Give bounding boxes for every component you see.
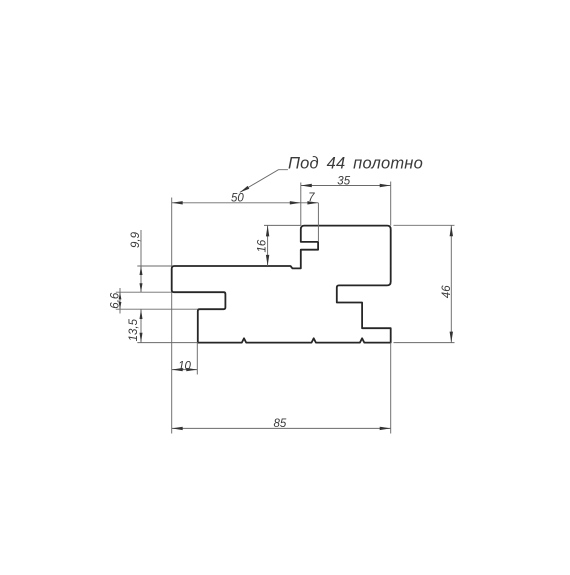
extension line left x=171.7 (50 top / 10 and 85 bottom) [171,198,173,267]
dimension 50 and 7 line [172,202,319,204]
extension line y=292.2 left (9,9 bottom / 6,6 top) [116,291,172,293]
dimension 46 line [450,225,452,342]
extension line y=225.4 (16 top) [264,224,301,226]
extension line y=309.2 left (6,6 bottom) [116,308,198,310]
extension line left x=171.7 lower (10 and 85) [171,292,173,433]
extension line x=197.3 (10 right) [196,343,198,375]
svg-text:13,5: 13,5 [128,318,140,341]
dimension 6,6 line [119,288,121,314]
svg-text:50: 50 [231,193,244,205]
leader line [240,170,288,193]
dimension 10 line [172,369,198,371]
extension line x=390.7 bottom (85 right) [390,343,392,434]
dimension 16 line [267,225,269,266]
svg-text:6,6: 6,6 [110,292,122,309]
svg-text:Под 44 полотно: Под 44 полотно [288,155,423,173]
svg-text:7: 7 [308,192,315,204]
extension line x=390.7 top (35 right) [390,182,392,226]
extension line x=318.4 (7 right) [317,203,319,242]
extension line x=300.8 (35 left / 50 right) [300,183,302,226]
extension line y=342.6 right (46 bottom) [394,342,455,344]
svg-text:85: 85 [274,418,287,430]
dimension 85 line [172,427,391,429]
svg-text:35: 35 [337,175,350,187]
svg-text:16: 16 [257,239,269,252]
profile outline [172,226,391,343]
extension line y=342.6 left (13,5 bottom) [137,342,198,344]
extension line y=225.3 right (46 top) [394,224,455,226]
svg-text:9,9: 9,9 [130,231,142,248]
dimension 9,9 line [140,230,142,292]
dimension 13,5 line [140,309,142,342]
extension line y=266 left (9,9 top) [137,265,171,267]
svg-text:10: 10 [178,360,191,372]
svg-text:46: 46 [441,285,453,298]
dimension 35 line [301,185,391,187]
